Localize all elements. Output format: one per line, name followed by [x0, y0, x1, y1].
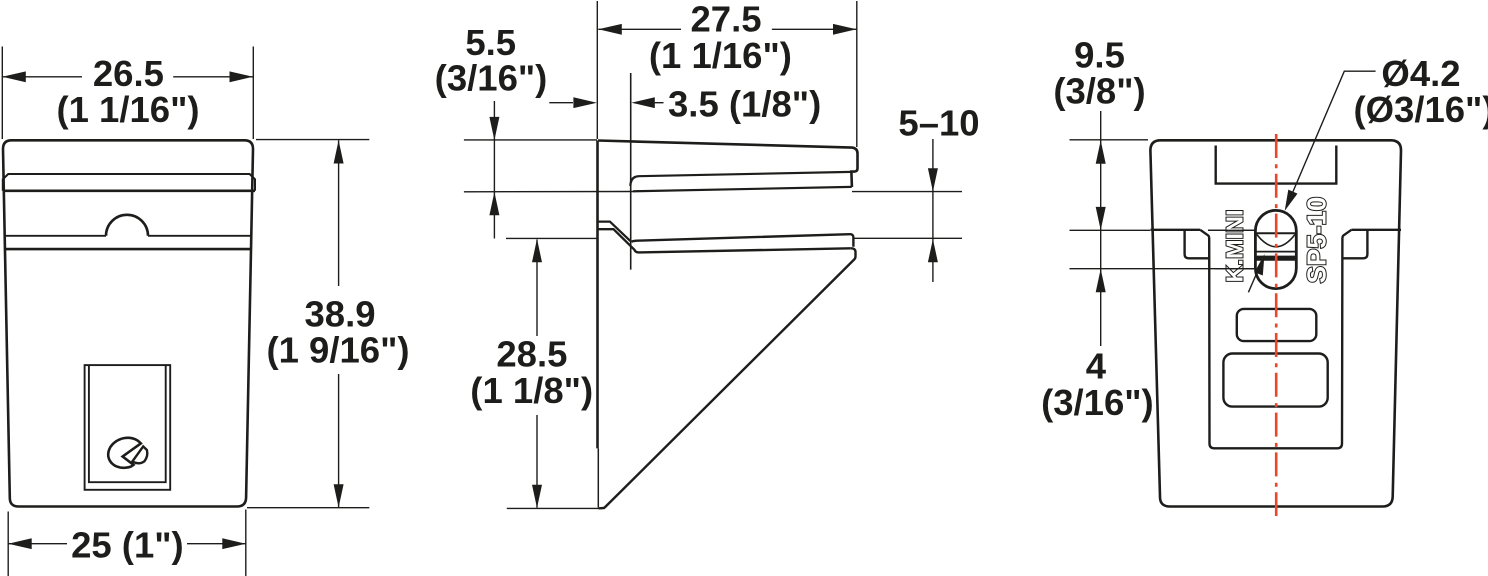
top notch	[1216, 146, 1337, 184]
dim 27.5 line	[598, 28, 856, 30]
extension line y192	[464, 191, 962, 193]
dim 28.5 arrows	[532, 239, 542, 508]
svg-text:4: 4	[1086, 346, 1107, 387]
dim 5-10 line	[932, 139, 934, 282]
lower jaw top edge	[632, 234, 854, 247]
logo plate outer rect	[85, 365, 171, 490]
body outline back view	[1150, 140, 1401, 506]
spring clip lower line	[598, 229, 635, 250]
dim 27.5 arrows	[598, 24, 856, 35]
dim 3.5 left tail and arrow	[549, 102, 573, 104]
dim 9.5 / 4 extension lines	[1070, 140, 1256, 269]
svg-text:(Ø3/16"): (Ø3/16")	[1353, 89, 1488, 130]
leader line pin	[1248, 268, 1259, 292]
leader arrow Ø4.2	[1285, 190, 1298, 211]
semicircle notch	[106, 215, 148, 236]
dim 25 arrows	[8, 538, 246, 549]
dim 5.5 arrows	[489, 117, 499, 215]
body outline front view	[3, 140, 253, 506]
svg-text:(1 1/16"): (1 1/16")	[649, 35, 792, 76]
extension line bottom y508	[507, 507, 605, 509]
pin bar	[1256, 256, 1296, 261]
svg-text:SP5-10: SP5-10	[1302, 197, 1332, 284]
svg-text:K.MINI: K.MINI	[1222, 209, 1248, 282]
dim 25 extension lines	[8, 510, 246, 576]
seam line at notch	[4, 235, 252, 237]
screw slot stadium	[1255, 210, 1296, 288]
large rounded rect window	[1223, 354, 1327, 407]
slot line y251	[1256, 251, 1295, 253]
Häfele logo wedge piece	[132, 446, 147, 463]
svg-text:Ø4.2: Ø4.2	[1381, 53, 1460, 94]
claw top line right	[1351, 229, 1401, 231]
svg-text:5–10: 5–10	[898, 103, 979, 144]
small rounded rect window	[1237, 309, 1317, 341]
back plate lower thin edge	[597, 448, 599, 507]
claw step right	[1344, 231, 1368, 259]
gusset outer profile	[599, 248, 856, 508]
svg-text:(1 9/16"): (1 9/16")	[266, 330, 409, 371]
dim 26.5 arrows	[2, 71, 253, 82]
dim 4 arrow	[1096, 269, 1106, 292]
dim 9.5 arrows	[1096, 140, 1106, 230]
svg-text:27.5: 27.5	[690, 0, 761, 40]
upper jaw pad underside	[633, 187, 852, 191]
dim 5-10 arrows	[928, 168, 938, 262]
leader line Ø4.2	[1288, 71, 1376, 204]
dim 9.5 / 4 vertical line	[1100, 111, 1102, 346]
dim 3.5 right arrow and tail	[655, 102, 664, 104]
dim 26.5 line	[2, 76, 253, 78]
dim 26.5 extension lines	[2, 47, 253, 140]
leader arrow pin	[1255, 254, 1265, 276]
upper jaw outline	[598, 141, 858, 188]
dim 38.9 line	[338, 140, 340, 507]
svg-text:(3/16"): (3/16")	[435, 58, 548, 99]
top lip band	[3, 174, 255, 191]
svg-text:28.5: 28.5	[496, 334, 567, 375]
svg-text:38.9: 38.9	[304, 293, 375, 334]
dim 5.5 line	[493, 101, 495, 239]
lip band bottom line	[3, 190, 255, 193]
extension line y238	[506, 237, 962, 239]
logo plate inner lines	[89, 366, 166, 482]
svg-text:(3/16"): (3/16")	[1041, 382, 1154, 423]
dim 38.9 arrows	[334, 140, 344, 507]
back plate edge	[596, 141, 599, 449]
claw top line left	[1150, 229, 1200, 231]
inner channel with claw chamfers	[1200, 230, 1351, 448]
svg-text:(1 1/8"): (1 1/8")	[470, 370, 593, 411]
svg-text:(1 1/16"): (1 1/16")	[56, 89, 199, 130]
dim 27.5 extension lines	[597, 1, 857, 147]
extension line y268 over engraving	[1215, 268, 1254, 270]
lower seam line	[4, 248, 252, 251]
dim 38.9 extension lines	[247, 140, 369, 508]
centerline	[1275, 134, 1278, 516]
upper jaw lip line	[630, 172, 851, 186]
spring clip upper line	[598, 222, 630, 242]
lower jaw pad bottom edge	[635, 248, 851, 252]
svg-text:25 (1"): 25 (1")	[71, 524, 184, 565]
svg-text:3.5 (1/8"): 3.5 (1/8")	[668, 84, 821, 125]
svg-text:9.5: 9.5	[1074, 34, 1125, 75]
hole bottom arc	[1257, 235, 1295, 247]
svg-text:26.5: 26.5	[93, 53, 164, 94]
svg-text:(3/8"): (3/8")	[1053, 71, 1145, 112]
extension line y230 over engraving	[1208, 229, 1255, 231]
slot chord line	[1257, 232, 1296, 234]
dim 25 line	[8, 543, 246, 545]
Häfele logo mark	[108, 438, 141, 468]
claw step left	[1185, 231, 1209, 259]
face extension line x630	[630, 73, 632, 270]
extension line y140	[464, 139, 597, 141]
dim 28.5 line	[536, 240, 538, 508]
